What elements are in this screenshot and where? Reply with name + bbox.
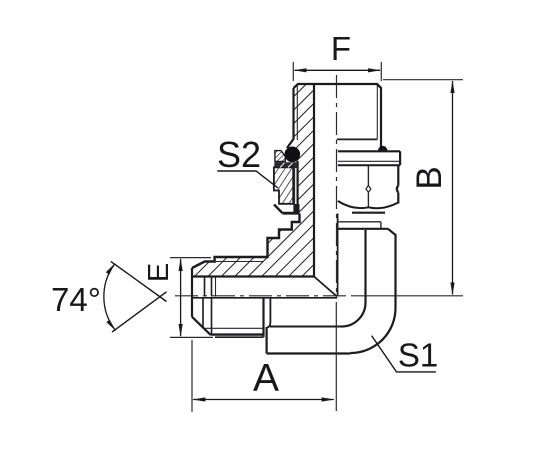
svg-text:B: B	[410, 166, 449, 189]
A right extension line	[335, 302, 337, 411]
left stud thread minor line (top section)	[203, 261, 264, 263]
left stud thread end face / hex face	[262, 298, 264, 337]
left stud cone/thread start verticals top half	[204, 278, 206, 297]
body bottom edge	[267, 352, 351, 354]
vertical stud thread minor line (section, left)	[296, 86, 298, 140]
hex bottom flats curves	[338, 201, 369, 208]
cut boundary line at horizontal centerline	[192, 297, 337, 299]
vertical centerline	[336, 75, 338, 296]
dimension E	[170, 257, 211, 259]
hex corner edge	[367, 166, 369, 186]
dimension A	[191, 340, 193, 412]
left stud tip face (section+exterior)	[191, 268, 193, 317]
elbow exterior outer edge	[394, 234, 396, 308]
cut boundary line at vertical centerline	[337, 214, 339, 297]
vertical stud left outer edge (thread major, section)	[287, 88, 294, 148]
elbow inner corner arc	[342, 303, 366, 327]
left stud thread major line (bottom)	[211, 333, 264, 335]
left stud lower half: nose chamfer	[192, 317, 211, 335]
elbow outer corner arc	[351, 308, 396, 353]
thread engagement thin line	[294, 167, 296, 204]
svg-text:F: F	[331, 30, 351, 67]
left stud thread minor line (bottom)	[205, 327, 264, 329]
dimension F	[292, 62, 294, 81]
angle 74 cone lines	[111, 261, 167, 301]
body shoulder lines (exterior right)	[338, 221, 381, 223]
left stud hex bottom-left edge	[266, 327, 268, 354]
left stud cone/thread start verticals bottom half	[202, 298, 204, 327]
staircase outline of body section	[192, 214, 300, 269]
vertical stud bore left wall	[313, 84, 315, 277]
O-ring (right, exterior bump)	[378, 146, 388, 151]
washer under O-ring (exterior right)	[338, 150, 400, 152]
svg-text:S2: S2	[217, 134, 261, 175]
elbow inner horizontal line	[270, 326, 342, 328]
left stud hex corner edge bottom half	[267, 298, 270, 328]
vertical stud thread major line (right, exterior)	[377, 84, 381, 147]
locknut bottom skirt	[274, 205, 283, 214]
left stud bore line (horizontal port top)	[192, 275, 314, 277]
S2 locknut section	[274, 167, 293, 204]
locknut washer (section, dark)	[275, 163, 298, 168]
svg-text:S1: S1	[398, 337, 438, 374]
horizontal centerline	[175, 295, 352, 297]
drill cone of vertical bore	[314, 277, 337, 297]
locknut retaining lip	[275, 151, 285, 162]
hex nut exterior (right view)	[397, 165, 399, 185]
elbow exterior inner edge	[364, 230, 366, 303]
svg-text:74°: 74°	[51, 281, 101, 318]
nut bottom washer line	[352, 212, 385, 214]
angle 74 arc	[104, 264, 116, 331]
hex washer face line	[215, 336, 264, 338]
dimension B	[383, 79, 463, 81]
svg-text:E: E	[143, 263, 175, 282]
label S2 with leader	[217, 171, 278, 188]
wall left edge below O-ring down to staircase	[297, 161, 299, 214]
body outline: vertical stud top face and chamfers	[294, 84, 382, 88]
svg-text:A: A	[253, 357, 279, 400]
body section hatch (elbow body + vertical stud wall + left stud upper wall, cut view)	[192, 84, 314, 277]
label S1 with leader	[372, 336, 436, 372]
thread shoulder line right	[337, 138, 378, 140]
O-ring S2 (section, left)	[285, 147, 301, 163]
vertical stud thread minor line (right, exterior)	[376, 86, 378, 140]
